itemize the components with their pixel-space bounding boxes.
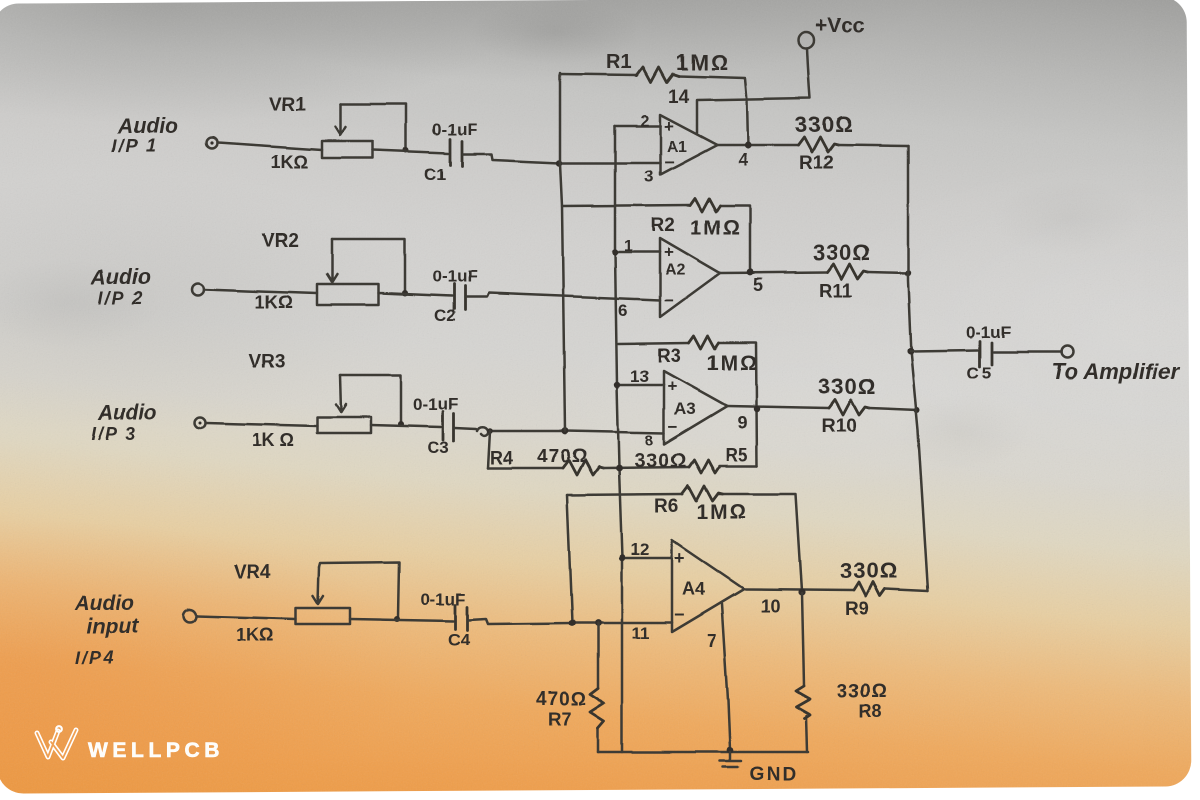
svg-text:1MΩ: 1MΩ [676, 50, 730, 75]
node VR4/C4 junction [394, 616, 400, 622]
svg-text:0-1uF: 0-1uF [432, 267, 477, 286]
node VR3/C3 junction [398, 421, 404, 427]
wire R9 to output bus [885, 589, 928, 591]
node A1 inverting input junction [556, 160, 562, 166]
svg-text:Audio: Audio [90, 266, 151, 289]
resistor R2 1M (feedback A2) [562, 198, 750, 270]
svg-text:0-1uF: 0-1uF [432, 120, 477, 139]
svg-text:+: + [664, 117, 674, 136]
capacitor C1 0.1uF [424, 120, 477, 184]
wire input2 to VR2 [204, 289, 317, 293]
svg-text:6: 6 [618, 301, 627, 320]
svg-text:8: 8 [645, 432, 653, 449]
svg-text:R11: R11 [819, 281, 853, 302]
input terminal I/P3 [91, 402, 206, 444]
node R4/R5 junction on bias bus [603, 465, 689, 472]
svg-text:VR3: VR3 [248, 352, 285, 373]
svg-text:A4: A4 [682, 579, 705, 599]
+Vcc terminal [798, 14, 865, 48]
svg-text:−: − [668, 417, 678, 436]
output terminal To Amplifier [1052, 346, 1180, 384]
svg-text:A3: A3 [674, 399, 696, 418]
wire C3 node down to R4 [488, 431, 490, 468]
resistor R7 470 (vertical) [536, 623, 604, 752]
svg-text:−: − [664, 291, 674, 310]
svg-text:R4: R4 [490, 448, 513, 468]
svg-text:Audio: Audio [74, 592, 135, 615]
svg-text:0-1uF: 0-1uF [966, 323, 1011, 342]
svg-text:VR1: VR1 [269, 94, 306, 115]
wire left feedback bus (vertical) [560, 73, 565, 431]
svg-text:VR4: VR4 [234, 562, 271, 583]
resistor R5 330 [634, 445, 757, 473]
svg-text:R2: R2 [651, 215, 675, 236]
capacitor C3 0.1uF [413, 395, 458, 457]
svg-text:1KΩ: 1KΩ [255, 292, 292, 312]
wire VR3 to C3 [371, 425, 441, 427]
pin 1 label, wire and node [612, 238, 660, 255]
wire R10 to output bus with node [869, 407, 920, 413]
wire non-inverting bias bus (vertical) [615, 126, 622, 752]
svg-text:+Vcc: +Vcc [815, 14, 865, 37]
input terminal I/P1 [112, 115, 218, 156]
svg-text:1KΩ: 1KΩ [271, 152, 308, 172]
node A1 output junction pin 4 [717, 141, 798, 170]
svg-text:To Amplifier: To Amplifier [1052, 359, 1180, 384]
op-amp A4 [672, 540, 744, 632]
svg-text:VR2: VR2 [262, 231, 299, 252]
wire VR2 to C2 [378, 293, 452, 296]
svg-text:C4: C4 [448, 630, 470, 649]
potentiometer VR1 1K [269, 94, 406, 172]
svg-text:1KΩ: 1KΩ [236, 625, 273, 645]
wire bus to C5 [910, 350, 978, 351]
resistor R12 330 [795, 112, 853, 174]
svg-text:Audio: Audio [97, 402, 158, 425]
svg-text:+: + [664, 243, 674, 262]
svg-text:1MΩ: 1MΩ [690, 216, 742, 239]
svg-text:+: + [674, 548, 685, 568]
wire bottom ground rail [598, 751, 808, 754]
input terminal I/P4 [74, 592, 197, 668]
resistor R9 330 [840, 558, 898, 620]
wire C3 to A3 inverting input [455, 428, 664, 433]
node VR2/C2 junction [402, 290, 408, 296]
pin 12 label, wire and node [619, 540, 672, 561]
svg-text:WELLPCB: WELLPCB [88, 739, 224, 762]
svg-text:330Ω: 330Ω [840, 558, 898, 583]
svg-text:I/P4: I/P4 [75, 648, 115, 668]
node output to C5 [906, 347, 913, 354]
resistor R1 1M (feedback A1) [560, 50, 748, 145]
node A3 inverting input junction [562, 428, 569, 435]
resistor R10 330 [818, 374, 876, 437]
resistor R6 1M (feedback A4) [567, 486, 802, 591]
op-amp A2 [660, 238, 720, 317]
wire R6 left leg down to A4 input node [567, 495, 572, 623]
svg-text:I/P 2: I/P 2 [98, 288, 144, 308]
wire C5 to amplifier terminal [994, 351, 1062, 354]
svg-text:9: 9 [737, 413, 747, 433]
svg-text:R12: R12 [799, 153, 834, 174]
svg-text:−: − [664, 153, 674, 172]
svg-text:R6: R6 [654, 496, 678, 517]
svg-text:11: 11 [632, 624, 650, 643]
potentiometer VR2 1K [255, 231, 405, 312]
svg-text:I/P 1: I/P 1 [112, 136, 158, 156]
node R7 top junction [595, 620, 602, 627]
svg-text:R5: R5 [725, 445, 748, 465]
potentiometer VR3 1K [248, 352, 401, 450]
capacitor C5 0.1uF [966, 323, 1011, 383]
capacitor C2 0.1uF [432, 267, 477, 325]
resistor R4 470 [488, 446, 603, 475]
pin 2 label and wire [615, 113, 660, 130]
resistor R3 1M (feedback A3) [618, 336, 759, 466]
svg-text:I/P 3: I/P 3 [91, 424, 137, 444]
wire output bus (vertical) [908, 146, 928, 591]
wire input3 to VR3 [206, 423, 317, 426]
svg-text:330Ω: 330Ω [837, 681, 888, 702]
svg-text:R9: R9 [845, 599, 869, 620]
svg-text:C5: C5 [967, 364, 995, 383]
svg-text:1: 1 [624, 238, 633, 255]
svg-text:A2: A2 [665, 262, 686, 279]
wire C4 to A4 inverting input [468, 619, 672, 624]
svg-text:−: − [674, 605, 685, 625]
ink scribble at C3 output [477, 427, 488, 436]
node A3 output junction pin 9 [727, 406, 829, 433]
wire input1 to VR1 [218, 143, 322, 150]
svg-text:+: + [667, 377, 677, 396]
WELLPCB watermark logo [37, 726, 224, 762]
svg-text:2: 2 [640, 113, 649, 130]
node R6/A4 inverting junction [569, 620, 576, 627]
svg-text:14: 14 [668, 87, 690, 108]
wire R11 to output bus with node [868, 270, 911, 276]
svg-text:0-1uF: 0-1uF [413, 395, 458, 414]
svg-text:3: 3 [644, 167, 653, 186]
wire VR4 to C4 [350, 619, 453, 621]
resistor R11 330 [813, 240, 871, 302]
wire R12 to output bus [838, 145, 908, 146]
svg-text:5: 5 [753, 275, 763, 295]
resistor R8 330 (vertical) [796, 593, 888, 752]
svg-text:470Ω: 470Ω [537, 446, 588, 467]
svg-text:1MΩ: 1MΩ [707, 352, 759, 375]
svg-text:R7: R7 [548, 709, 571, 729]
svg-text:Audio: Audio [117, 115, 178, 138]
svg-text:1K Ω: 1K Ω [252, 430, 294, 450]
svg-text:470Ω: 470Ω [536, 689, 587, 710]
svg-text:330Ω: 330Ω [634, 450, 687, 472]
svg-text:1MΩ: 1MΩ [696, 501, 748, 524]
svg-text:330Ω: 330Ω [818, 374, 876, 399]
node C3/R4 junction [487, 428, 493, 434]
wire input4 to VR4 [197, 616, 296, 619]
node A4 output junction pin 10 [744, 588, 854, 616]
node A2 output junction pin 5 [720, 269, 828, 295]
svg-text:0-1uF: 0-1uF [420, 590, 465, 609]
pin 7 label and ground wire [707, 604, 730, 749]
svg-text:input: input [87, 615, 139, 638]
node VR1/C1 junction [403, 147, 409, 153]
svg-text:7: 7 [707, 631, 717, 651]
svg-text:R3: R3 [657, 346, 681, 367]
wire VR1 to C1 [373, 150, 448, 153]
svg-text:4: 4 [738, 150, 748, 170]
pin 13 label, wire and node [614, 367, 664, 388]
svg-text:10: 10 [760, 596, 780, 616]
op-amp A1 [660, 115, 717, 175]
ground GND [720, 747, 798, 785]
svg-text:R8: R8 [859, 701, 882, 721]
input terminal I/P2 [90, 266, 204, 308]
svg-text:330Ω: 330Ω [795, 112, 853, 137]
wire C1 to A1 inverting input [463, 154, 660, 163]
potentiometer VR4 1K [234, 562, 399, 645]
wire Vcc to pin 14 [697, 48, 810, 133]
svg-text:R10: R10 [822, 416, 857, 437]
svg-text:330Ω: 330Ω [813, 240, 871, 265]
wire C2 to A2 inverting input [466, 293, 660, 300]
svg-text:GND: GND [750, 764, 798, 785]
op-amp A3 [664, 371, 727, 444]
svg-text:13: 13 [630, 367, 649, 386]
svg-text:12: 12 [630, 540, 649, 559]
svg-text:C1: C1 [424, 165, 446, 184]
svg-text:C2: C2 [434, 306, 456, 325]
svg-text:C3: C3 [427, 438, 449, 457]
capacitor C4 0.1uF [420, 590, 470, 649]
svg-text:R1: R1 [606, 51, 632, 73]
